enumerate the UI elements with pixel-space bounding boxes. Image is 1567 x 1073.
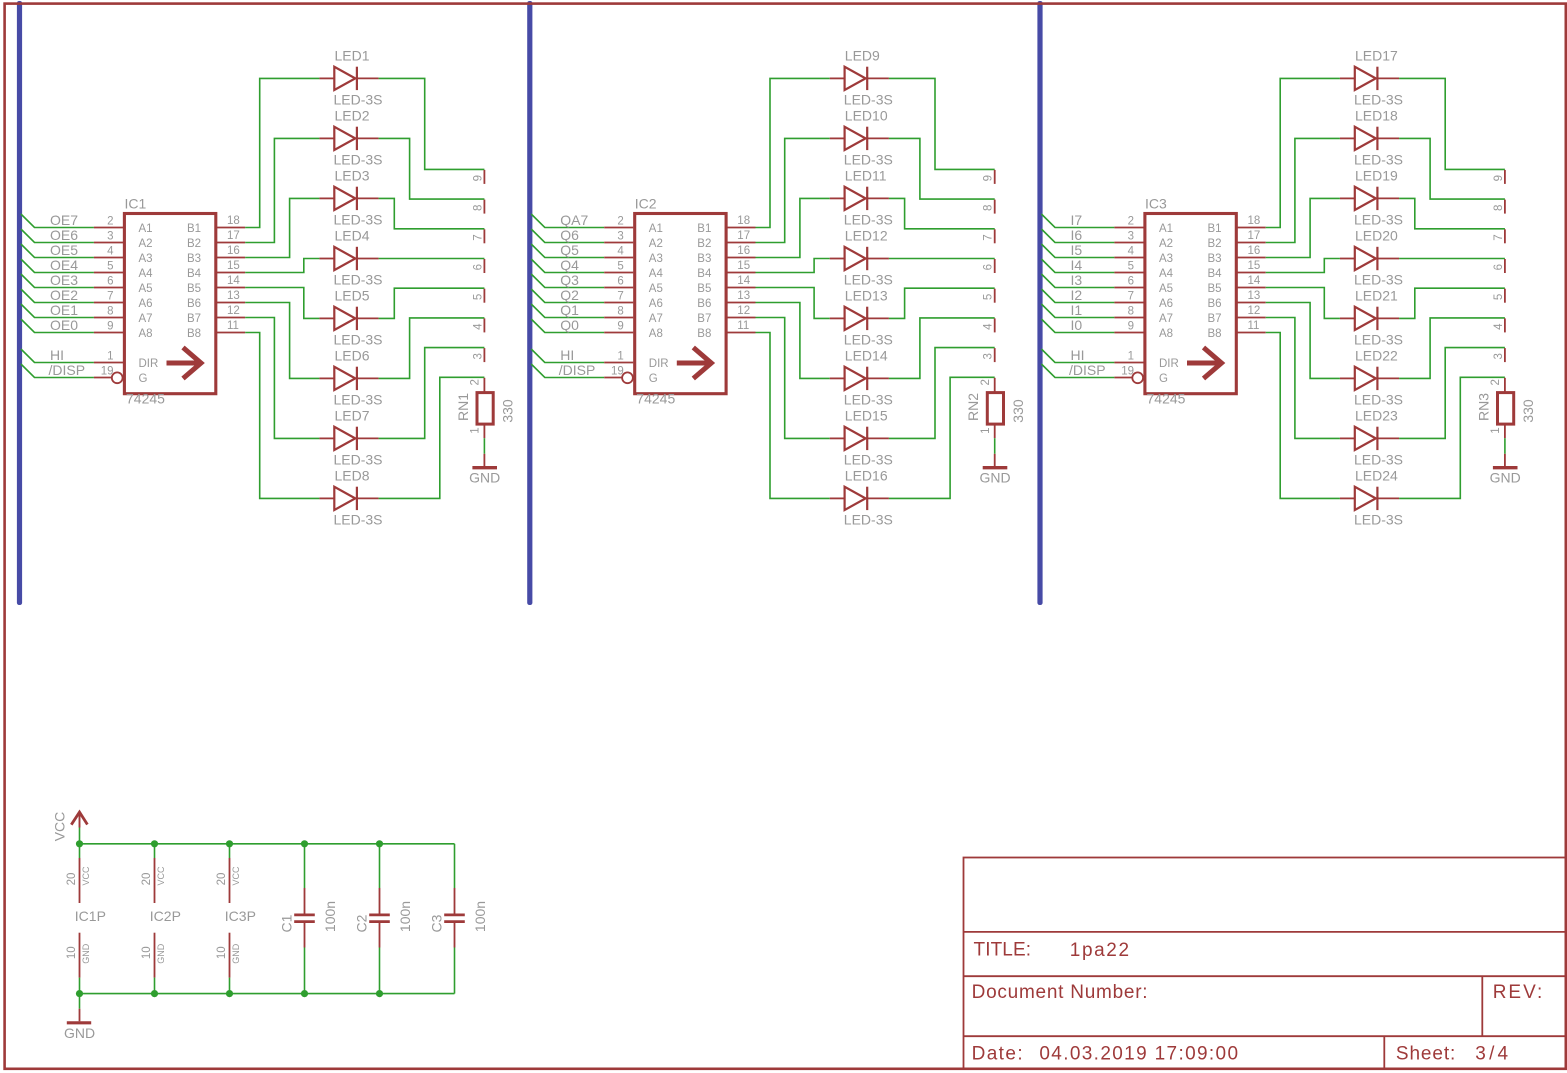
svg-text:I1: I1 (1071, 302, 1083, 318)
svg-text:LED19: LED19 (1355, 167, 1398, 183)
inversion bubble IC2 pin 19 (622, 372, 633, 383)
pin IC2.1 (DIR) (604, 362, 633, 364)
svg-text:9: 9 (472, 175, 484, 181)
svg-text:B6: B6 (1208, 298, 1222, 310)
wire net /DISP (bus to IC1 pin 19 G) (21, 364, 94, 378)
svg-text:LED-3S: LED-3S (1354, 92, 1403, 108)
svg-text:6: 6 (107, 276, 113, 288)
wire LED17 cathode to RN3 pin 9 (1399, 78, 1505, 169)
svg-text:LED-3S: LED-3S (1354, 392, 1403, 408)
svg-text:GND: GND (81, 943, 91, 964)
svg-text:IC2: IC2 (635, 196, 657, 212)
pin IC2.19 (G, inverted) (604, 377, 622, 379)
wire IC3 B7 to LED23 anode (1266, 318, 1340, 439)
svg-text:I2: I2 (1071, 287, 1083, 303)
svg-text:20: 20 (141, 873, 153, 886)
svg-text:19: 19 (101, 366, 114, 378)
pin IC3.18 (B1) (1236, 227, 1266, 229)
wire net I1 (bus to IC3 pin 8) (1041, 304, 1114, 318)
pin IC2.13 (B6) (726, 302, 756, 304)
bus IC2 input bus (527, 1, 532, 605)
wire net OE6 (bus to IC1 pin 3) (21, 229, 94, 243)
diode LED10 (LED-3S) (830, 107, 893, 167)
svg-text:8: 8 (472, 205, 484, 211)
svg-text:20: 20 (66, 873, 78, 886)
wire RN3 pin 1 to GND (1504, 438, 1506, 454)
svg-text:GND: GND (231, 943, 241, 964)
pin IC3.2 (A1) (1114, 227, 1143, 229)
svg-text:OE7: OE7 (50, 212, 78, 228)
svg-text:15: 15 (737, 260, 750, 272)
svg-text:OE5: OE5 (50, 242, 78, 258)
pin IC1.11 (B8) (216, 332, 246, 334)
diode LED2 (LED-3S) (319, 107, 382, 167)
power symbol VCC (52, 812, 88, 842)
svg-text:5: 5 (983, 294, 995, 300)
diode LED22 (LED-3S) (1340, 347, 1403, 407)
svg-text:11: 11 (1248, 320, 1260, 332)
svg-text:12: 12 (1248, 305, 1261, 317)
svg-text:B3: B3 (697, 253, 711, 265)
diode LED11 (LED-3S) (830, 167, 893, 227)
svg-text:A8: A8 (649, 328, 663, 340)
wire net Q1 (bus to IC2 pin 8) (531, 304, 604, 318)
wire IC1 B2 to LED2 anode (245, 138, 319, 242)
svg-text:A4: A4 (1159, 268, 1174, 280)
svg-text:14: 14 (1248, 275, 1261, 287)
svg-text:8: 8 (1128, 306, 1134, 318)
svg-text:LED-3S: LED-3S (334, 452, 383, 468)
svg-text:HI: HI (50, 347, 64, 363)
pin IC2.6 (A5) (604, 287, 633, 289)
diode LED16 (LED-3S) (830, 467, 893, 527)
pin IC3.7 (A6) (1114, 302, 1143, 304)
svg-text:LED-3S: LED-3S (844, 392, 893, 408)
svg-text:C1: C1 (279, 914, 295, 932)
svg-text:OE4: OE4 (50, 257, 78, 273)
pin IC1.15 (B4) (216, 272, 246, 274)
junction GND rail (226, 990, 233, 997)
wire IC1 B4 to LED4 anode (245, 259, 319, 273)
svg-text:LED4: LED4 (335, 228, 370, 244)
wire net OE2 (bus to IC1 pin 7) (21, 289, 94, 303)
svg-text:16: 16 (227, 245, 240, 257)
svg-text:LED-3S: LED-3S (844, 332, 893, 348)
wire IC1 B1 to LED1 anode (245, 78, 319, 227)
diode LED8 (LED-3S) (319, 467, 382, 527)
wire LED7 cathode to RN1 pin 3 (379, 348, 485, 439)
pin RN1.3 (483, 348, 485, 362)
pin IC3.13 (B6) (1236, 302, 1266, 304)
svg-text:B8: B8 (1208, 328, 1222, 340)
svg-text:B7: B7 (187, 313, 201, 325)
svg-text:LED-3S: LED-3S (334, 332, 383, 348)
svg-text:OE2: OE2 (50, 287, 78, 303)
svg-text:IC3: IC3 (1145, 196, 1167, 212)
pin IC3.8 (A7) (1114, 317, 1143, 319)
svg-text:74245: 74245 (636, 391, 675, 407)
DIR arrow symbol (677, 361, 710, 366)
svg-text:5: 5 (617, 261, 623, 273)
svg-text:B2: B2 (187, 238, 201, 250)
wire IC2 B7 to LED15 anode (756, 318, 830, 439)
pin IC1.16 (B3) (216, 257, 246, 259)
svg-text:VCC: VCC (156, 866, 166, 886)
pin IC2.5 (A4) (604, 272, 633, 274)
pin RN2.3 (994, 348, 996, 362)
svg-text:3: 3 (1493, 353, 1505, 359)
svg-text:A7: A7 (1159, 313, 1173, 325)
pin IC3.17 (B2) (1236, 242, 1266, 244)
wire net /DISP (bus to IC2 pin 19 G) (531, 364, 604, 378)
wire IC2 B5 to LED13 anode (756, 288, 830, 319)
svg-text:Q2: Q2 (560, 287, 579, 303)
wire LED8 cathode to RN1 pin 2 (379, 377, 485, 498)
junction GND rail (376, 990, 383, 997)
pin RN1.6 (483, 259, 485, 273)
diode LED13 (LED-3S) (830, 287, 893, 347)
svg-text:A5: A5 (649, 283, 663, 295)
svg-text:B6: B6 (697, 298, 711, 310)
svg-text:OE3: OE3 (50, 272, 78, 288)
svg-text:8: 8 (1493, 205, 1505, 211)
bus IC1 input bus (17, 1, 22, 605)
wire LED16 cathode to RN2 pin 2 (889, 377, 995, 498)
wire IC2 B3 to LED11 anode (756, 198, 830, 257)
svg-text:14: 14 (227, 275, 240, 287)
svg-text:LED5: LED5 (335, 287, 370, 303)
diode LED21 (LED-3S) (1340, 287, 1403, 347)
svg-text:LED-3S: LED-3S (1354, 212, 1403, 228)
svg-text:LED-3S: LED-3S (334, 92, 383, 108)
svg-text:18: 18 (737, 215, 750, 227)
pin IC2.8 (A7) (604, 317, 633, 319)
svg-text:18: 18 (227, 215, 240, 227)
svg-text:330: 330 (500, 399, 516, 423)
svg-text:RN2: RN2 (965, 393, 981, 421)
svg-text:C3: C3 (429, 914, 445, 932)
pin IC1.14 (B5) (216, 287, 246, 289)
pin IC3.11 (B8) (1236, 332, 1266, 334)
svg-text:1pa22: 1pa22 (1070, 940, 1131, 961)
pin RN1.8 (483, 200, 485, 214)
svg-text:LED20: LED20 (1355, 228, 1398, 244)
svg-text:B7: B7 (697, 313, 711, 325)
svg-text:LED21: LED21 (1355, 287, 1398, 303)
svg-text:VCC: VCC (81, 866, 91, 886)
IC IC1 74245 body (124, 214, 215, 394)
pin RN2.5 (994, 289, 996, 303)
svg-text:I4: I4 (1071, 257, 1083, 273)
svg-text:B8: B8 (187, 328, 201, 340)
svg-text:LED22: LED22 (1355, 347, 1398, 363)
wire IC3 B5 to LED21 anode (1266, 288, 1340, 319)
diode LED23 (LED-3S) (1340, 407, 1403, 467)
svg-text:LED-3S: LED-3S (1354, 152, 1403, 168)
svg-text:3: 3 (983, 353, 995, 359)
wire IC2 B1 to LED9 anode (756, 78, 830, 227)
wire net I7 (bus to IC3 pin 2) (1041, 214, 1114, 228)
wire net HI (bus to IC3 pin 1 DIR) (1041, 349, 1114, 363)
wire IC1 B5 to LED5 anode (245, 288, 319, 319)
svg-text:LED6: LED6 (335, 347, 370, 363)
svg-text:4: 4 (1128, 246, 1135, 258)
svg-text:B4: B4 (697, 268, 712, 280)
pin IC2.9 (A8) (604, 332, 633, 334)
wire GND rail (80, 993, 455, 995)
wire net OE7 (bus to IC1 pin 2) (21, 214, 94, 228)
diode LED24 (LED-3S) (1340, 467, 1403, 527)
pin IC3.1 (DIR) (1114, 362, 1143, 364)
wire LED11 cathode to RN2 pin 7 (889, 198, 995, 228)
svg-text:LED2: LED2 (335, 107, 370, 123)
svg-text:6: 6 (617, 276, 623, 288)
svg-text:LED-3S: LED-3S (334, 512, 383, 528)
svg-text:2: 2 (470, 379, 482, 385)
pin IC2.7 (A6) (604, 302, 633, 304)
svg-text:19: 19 (611, 366, 624, 378)
pin IC3.6 (A5) (1114, 287, 1143, 289)
wire net I5 (bus to IC3 pin 4) (1041, 244, 1114, 258)
svg-text:A7: A7 (139, 313, 153, 325)
svg-text:GND: GND (1490, 470, 1521, 486)
svg-text:04.03.2019 17:09:00: 04.03.2019 17:09:00 (1039, 1044, 1239, 1065)
svg-text:DIR: DIR (1159, 358, 1179, 370)
junction VCC rail (76, 840, 83, 847)
svg-text:20: 20 (216, 873, 228, 886)
svg-text:6: 6 (1128, 276, 1134, 288)
wire LED24 cathode to RN3 pin 2 (1399, 377, 1505, 498)
wire LED14 cathode to RN2 pin 4 (889, 318, 995, 379)
svg-text:6: 6 (1493, 264, 1505, 270)
svg-text:LED-3S: LED-3S (1354, 512, 1403, 528)
wire LED13 cathode to RN2 pin 5 (889, 288, 995, 318)
svg-text:1: 1 (980, 427, 992, 433)
svg-text:LED16: LED16 (845, 467, 888, 483)
svg-text:LED14: LED14 (845, 347, 888, 363)
svg-text:11: 11 (737, 320, 749, 332)
pin RN3.7 (1504, 229, 1506, 243)
title block row separator 2 (964, 975, 1566, 977)
svg-text:15: 15 (227, 260, 240, 272)
svg-text:LED-3S: LED-3S (1354, 452, 1403, 468)
svg-text:B2: B2 (1208, 238, 1222, 250)
svg-text:7: 7 (472, 234, 484, 240)
svg-text:100n: 100n (322, 901, 338, 932)
resistor network RN1 330 (455, 378, 516, 438)
svg-text:11: 11 (227, 320, 239, 332)
pin IC3.5 (A4) (1114, 272, 1143, 274)
svg-text:GND: GND (979, 470, 1010, 486)
svg-text:16: 16 (1248, 245, 1261, 257)
wire net OE4 (bus to IC1 pin 5) (21, 259, 94, 273)
junction GND rail (76, 990, 83, 997)
svg-text:HI: HI (1071, 347, 1085, 363)
DIR arrow symbol (167, 361, 200, 366)
svg-text:LED-3S: LED-3S (334, 212, 383, 228)
svg-text:Q4: Q4 (560, 257, 579, 273)
pin IC3.9 (A8) (1114, 332, 1143, 334)
pin IC1.18 (B1) (216, 227, 246, 229)
svg-text:LED-3S: LED-3S (844, 212, 893, 228)
svg-text:A2: A2 (649, 238, 663, 250)
svg-text:A6: A6 (1159, 298, 1173, 310)
pin IC3.16 (B3) (1236, 257, 1266, 259)
svg-text:3: 3 (1128, 231, 1134, 243)
svg-text:LED1: LED1 (335, 47, 370, 63)
svg-text:A5: A5 (139, 283, 153, 295)
ground GND (RN2) (979, 454, 1010, 486)
pin RN3.6 (1504, 259, 1506, 273)
pin IC2.3 (A2) (604, 242, 633, 244)
svg-text:3: 3 (107, 231, 113, 243)
svg-text:4: 4 (1493, 323, 1505, 330)
svg-text:LED-3S: LED-3S (844, 512, 893, 528)
pin IC2.18 (B1) (726, 227, 756, 229)
diode LED12 (LED-3S) (830, 228, 893, 288)
svg-text:B8: B8 (697, 328, 711, 340)
svg-text:HI: HI (560, 347, 574, 363)
svg-text:10: 10 (66, 946, 78, 959)
pin RN2.9 (994, 170, 996, 184)
svg-text:5: 5 (107, 261, 113, 273)
svg-text:I0: I0 (1071, 317, 1083, 333)
svg-text:G: G (139, 373, 148, 385)
svg-text:A4: A4 (139, 268, 154, 280)
wire net I0 (bus to IC3 pin 9) (1041, 319, 1114, 333)
svg-text:Q6: Q6 (560, 227, 579, 243)
wire LED6 cathode to RN1 pin 4 (379, 318, 485, 379)
pin RN1.5 (483, 289, 485, 303)
svg-text:B2: B2 (697, 238, 711, 250)
pin IC1.6 (A5) (94, 287, 123, 289)
svg-text:330: 330 (1010, 399, 1026, 423)
wire LED3 cathode to RN1 pin 7 (379, 198, 485, 228)
svg-text:2: 2 (1128, 216, 1134, 228)
svg-text:OE6: OE6 (50, 227, 78, 243)
svg-text:7: 7 (617, 291, 623, 303)
pin IC1.5 (A4) (94, 272, 123, 274)
pin RN2.4 (994, 318, 996, 332)
wire IC2 B6 to LED14 anode (756, 303, 830, 379)
pin IC3.15 (B4) (1236, 272, 1266, 274)
junction VCC rail (301, 840, 308, 847)
pin IC2.11 (B8) (726, 332, 756, 334)
svg-text:9: 9 (617, 321, 623, 333)
svg-text:A3: A3 (649, 253, 663, 265)
svg-text:I5: I5 (1071, 242, 1083, 258)
svg-text:13: 13 (227, 290, 240, 302)
pin RN3.3 (1504, 348, 1506, 362)
svg-text:LED8: LED8 (335, 467, 370, 483)
wire IC2 B2 to LED10 anode (756, 138, 830, 242)
wire net I4 (bus to IC3 pin 5) (1041, 259, 1114, 273)
wire LED2 cathode to RN1 pin 8 (379, 138, 485, 199)
svg-text:LED11: LED11 (845, 167, 887, 183)
svg-text:G: G (649, 373, 658, 385)
svg-text:10: 10 (141, 946, 153, 959)
pin IC2.15 (B4) (726, 272, 756, 274)
diode LED1 (LED-3S) (319, 47, 382, 107)
wire net HI (bus to IC2 pin 1 DIR) (531, 349, 604, 363)
diode LED18 (LED-3S) (1340, 107, 1403, 167)
wire IC3 B2 to LED18 anode (1266, 138, 1340, 242)
pin IC1.7 (A6) (94, 302, 123, 304)
pin IC3.3 (A2) (1114, 242, 1143, 244)
svg-text:5: 5 (1493, 294, 1505, 300)
svg-text:/DISP: /DISP (1069, 362, 1106, 378)
svg-text:LED-3S: LED-3S (334, 392, 383, 408)
svg-text:10: 10 (216, 946, 228, 959)
pin RN3.5 (1504, 289, 1506, 303)
diode LED4 (LED-3S) (319, 228, 382, 288)
wire net Q2 (bus to IC2 pin 7) (531, 289, 604, 303)
wire LED4 cathode to RN1 pin 6 (379, 258, 485, 260)
pin IC1.12 (B7) (216, 317, 246, 319)
bus IC3 input bus (1037, 1, 1042, 605)
svg-text:B4: B4 (1208, 268, 1223, 280)
svg-text:8: 8 (617, 306, 623, 318)
svg-text:LED12: LED12 (845, 228, 888, 244)
wire IC2 B8 to LED16 anode (756, 333, 830, 499)
svg-text:4: 4 (617, 246, 624, 258)
svg-text:IC2P: IC2P (150, 908, 181, 924)
pin IC1.8 (A7) (94, 317, 123, 319)
svg-text:LED17: LED17 (1355, 47, 1398, 63)
svg-text:9: 9 (983, 175, 995, 181)
svg-text:3: 3 (617, 231, 623, 243)
svg-text:9: 9 (1493, 175, 1505, 181)
svg-text:DIR: DIR (139, 358, 159, 370)
pin IC1.9 (A8) (94, 332, 123, 334)
wire LED9 cathode to RN2 pin 9 (889, 78, 995, 169)
svg-text:1: 1 (470, 427, 482, 433)
svg-text:B3: B3 (187, 253, 201, 265)
svg-text:LED3: LED3 (335, 167, 370, 183)
svg-text:100n: 100n (472, 901, 488, 932)
wire LED20 cathode to RN3 pin 6 (1399, 258, 1505, 260)
svg-text:RN3: RN3 (1475, 393, 1491, 421)
svg-text:330: 330 (1520, 399, 1536, 423)
diode LED14 (LED-3S) (830, 347, 893, 407)
svg-text:A8: A8 (139, 328, 153, 340)
svg-text:A1: A1 (139, 223, 153, 235)
pin RN2.8 (994, 200, 996, 214)
junction VCC rail (151, 840, 158, 847)
pin RN3.9 (1504, 170, 1506, 184)
ground GND (power rail) (64, 994, 95, 1041)
svg-text:Document Number:: Document Number: (972, 982, 1149, 1003)
svg-text:A5: A5 (1159, 283, 1173, 295)
svg-text:Q1: Q1 (560, 302, 579, 318)
pin RN2.7 (994, 229, 996, 243)
wire net Q4 (bus to IC2 pin 5) (531, 259, 604, 273)
wire VCC rail (80, 843, 455, 845)
svg-text:I6: I6 (1071, 227, 1083, 243)
svg-text:IC3P: IC3P (225, 908, 256, 924)
svg-text:Sheet:: Sheet: (1396, 1044, 1456, 1065)
svg-text:GND: GND (156, 943, 166, 964)
diode LED15 (LED-3S) (830, 407, 893, 467)
svg-text:A1: A1 (649, 223, 663, 235)
svg-text:B7: B7 (1208, 313, 1222, 325)
svg-text:1: 1 (1128, 351, 1134, 363)
diode LED17 (LED-3S) (1340, 47, 1403, 107)
svg-text:B5: B5 (697, 283, 711, 295)
svg-text:IC1: IC1 (125, 196, 147, 212)
pin IC3.4 (A3) (1114, 257, 1143, 259)
wire net QA7 (bus to IC2 pin 2) (531, 214, 604, 228)
